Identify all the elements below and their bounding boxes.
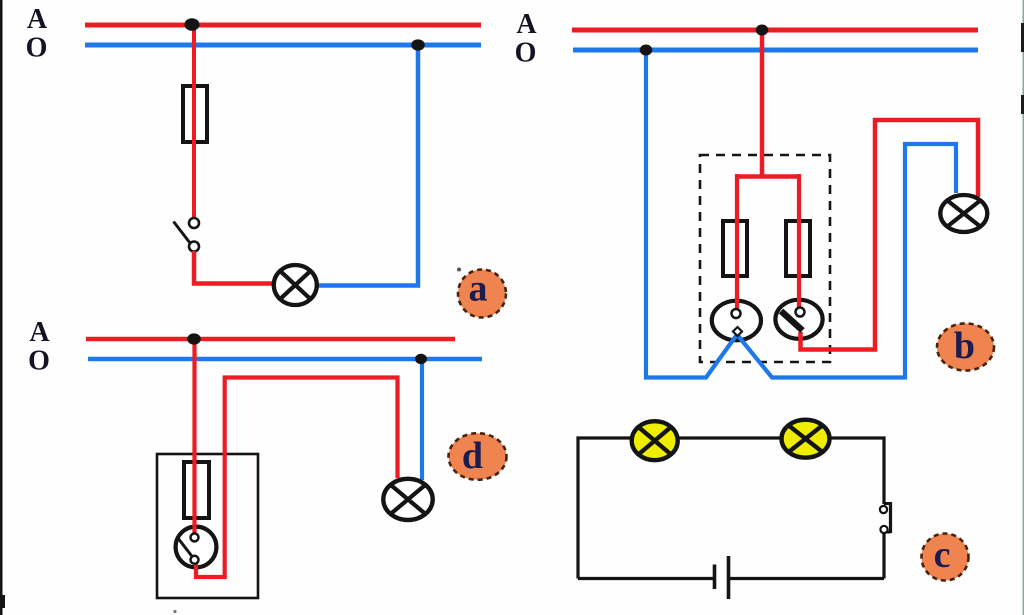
speck — [173, 610, 176, 613]
wire red through fuse F3 to switch — [797, 174, 801, 309]
fuse F1 — [183, 86, 207, 142]
right border edge — [1021, 0, 1024, 615]
wire red drop through fuse to switch — [192, 339, 196, 535]
wire loop right lower — [882, 533, 885, 579]
label badge d — [449, 433, 507, 480]
wire red through fuse F2 to socket — [735, 174, 739, 311]
speck — [457, 268, 461, 272]
switch top contact — [796, 308, 805, 317]
wire loop bottom right — [729, 577, 885, 580]
socket body — [712, 301, 761, 341]
svg-text:a: a — [469, 268, 488, 310]
wire neutral bus O (blue) — [85, 43, 481, 48]
switch lever bar — [781, 311, 803, 331]
wire blue from lamp to neutral — [310, 47, 418, 286]
lamp L1 — [274, 265, 317, 305]
wire blue drop to lamp — [420, 359, 424, 480]
fuse F2 — [723, 221, 747, 276]
battery cell — [715, 556, 729, 599]
socket top contact — [732, 309, 741, 318]
lamp L5 — [782, 420, 830, 458]
dashed distribution box — [700, 155, 830, 362]
svg-text:O: O — [28, 346, 50, 377]
svg-text:A: A — [29, 317, 50, 348]
svg-text:b: b — [954, 325, 975, 367]
svg-text:c: c — [934, 534, 951, 576]
lamp L3 — [383, 479, 432, 520]
junction on red bus — [187, 333, 201, 344]
switch lever — [178, 538, 193, 558]
svg-text:d: d — [462, 435, 483, 477]
wire loop left top right — [578, 438, 884, 579]
junction on blue bus — [411, 39, 425, 50]
wire red drop to fuse and switch — [192, 25, 196, 219]
junction on red bus — [756, 25, 769, 36]
switch bottom contact — [191, 556, 199, 564]
wire red from switch to lamp — [194, 251, 280, 284]
junction on blue bus — [640, 45, 653, 56]
wire phase bus A (red) — [572, 28, 978, 33]
wire phase bus A (red) — [85, 23, 481, 28]
svg-text:A: A — [516, 9, 537, 40]
wire loop bottom left — [578, 577, 715, 580]
rotary switch body — [775, 300, 822, 339]
svg-text:O: O — [26, 33, 48, 64]
lamp L4 — [632, 421, 678, 460]
wire red from switch to lamp — [801, 120, 979, 350]
fuse F3 — [786, 221, 810, 276]
switch S1 — [174, 218, 200, 252]
wire neutral bus O (blue) — [573, 48, 978, 53]
wire red drop from bus — [760, 30, 765, 178]
wire phase bus A (red) — [86, 337, 455, 342]
svg-text:A: A — [27, 4, 48, 35]
wire red tee — [737, 174, 799, 179]
junction on blue bus — [415, 354, 427, 364]
junction on red bus — [185, 18, 200, 31]
label badge b — [937, 323, 994, 370]
switch S2 — [880, 502, 891, 533]
lamp L2 — [940, 195, 987, 232]
wire red from switch to lamp — [196, 378, 398, 578]
wire red through fuse — [192, 84, 196, 219]
junction box — [157, 454, 258, 598]
wire blue tent from neutral to socket and lamp — [646, 52, 956, 378]
label badge a — [458, 268, 506, 318]
socket bottom contact — [733, 327, 742, 336]
switch body — [176, 527, 217, 568]
svg-text:O: O — [515, 38, 537, 69]
left border edge — [0, 0, 5, 615]
fuse F4 — [184, 462, 209, 518]
switch top contact — [191, 533, 199, 541]
label badge c — [922, 534, 969, 581]
wire neutral bus O (blue) — [88, 357, 482, 362]
